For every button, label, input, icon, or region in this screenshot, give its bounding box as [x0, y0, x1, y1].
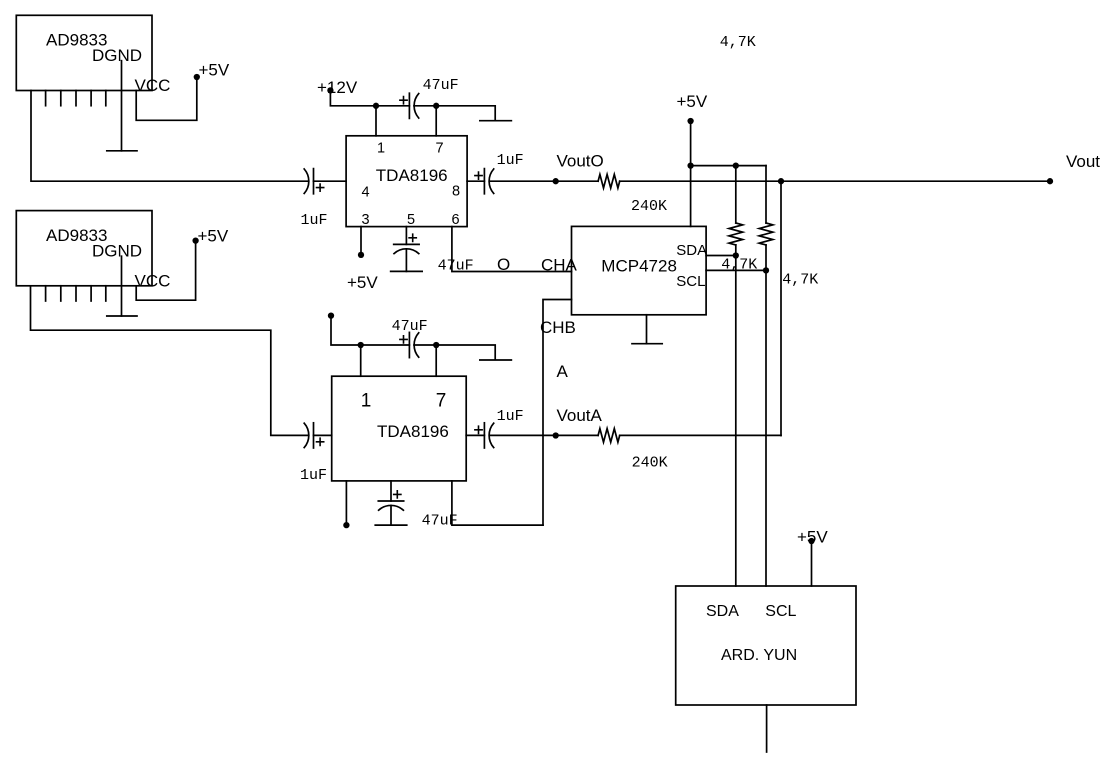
svg-text:Vout: Vout [1066, 152, 1100, 171]
svg-text:1uF: 1uF [300, 467, 327, 484]
wire rail C6 to ground [414, 345, 495, 360]
wire C8 to R4 [490, 434, 598, 436]
svg-text:DGND: DGND [92, 46, 142, 65]
node +5V (U1) [194, 74, 200, 80]
svg-text:5: 5 [407, 212, 415, 228]
wire rail C2 to ground [414, 106, 495, 121]
svg-text:A: A [557, 362, 569, 381]
svg-text:4,7K: 4,7K [782, 271, 818, 288]
svg-text:+5V: +5V [199, 61, 230, 80]
junction pullup rail +5V [687, 162, 693, 168]
svg-text:ARD. YUN: ARD. YUN [721, 647, 797, 664]
junction pin1 rail [373, 103, 379, 109]
svg-text:240K: 240K [632, 455, 668, 472]
wire U3 SDA pin [706, 255, 736, 257]
ground rail (C2) [480, 120, 512, 122]
wire U5 pin6 to CHB [452, 481, 543, 525]
svg-text:3: 3 [361, 212, 369, 228]
node +5V (U6) [808, 538, 814, 544]
wire supply rail left (U5) [331, 316, 409, 345]
ground U4 DGND [107, 315, 137, 317]
node Vout [1047, 178, 1053, 184]
junction pin7 rail (U5) [433, 342, 439, 348]
U4 pin stubs [46, 286, 106, 301]
svg-text:1uF: 1uF [497, 408, 524, 425]
junction SDA [733, 252, 739, 258]
svg-text:+5V: +5V [198, 227, 229, 246]
wire U4 DGND [121, 256, 123, 316]
junction pin7 rail [433, 103, 439, 109]
svg-text:7: 7 [436, 391, 447, 412]
svg-text:47uF: 47uF [423, 77, 459, 94]
svg-text:SCL: SCL [765, 603, 796, 620]
capacitor C3 47uF [394, 234, 419, 253]
svg-text:SCL: SCL [676, 273, 705, 290]
svg-text:+12V: +12V [317, 78, 358, 97]
ground C3 [391, 270, 423, 272]
ground rail (C6) [480, 359, 512, 361]
wire U4 VCC to +5V [136, 241, 195, 301]
wire C5 to U5 pin4 [314, 434, 332, 436]
svg-text:1uF: 1uF [497, 152, 524, 169]
resistor R4 240K [598, 429, 620, 443]
wire U1 DGND [121, 61, 123, 151]
wire U3 CHB [543, 300, 572, 526]
resistor R2 4,7K [729, 223, 743, 245]
IC U5 TDA8196 body [332, 376, 467, 481]
node +5V (MCP) [687, 118, 693, 124]
capacitor C7 47uF [378, 491, 403, 510]
svg-text:VoutA: VoutA [557, 406, 603, 425]
wire +5V to MCP VDD [690, 121, 692, 226]
wire pullup rail [691, 165, 766, 167]
node +5V (U4) [192, 237, 198, 243]
svg-text:47uF: 47uF [392, 318, 428, 335]
svg-text:MCP4728: MCP4728 [601, 257, 677, 276]
junction SCL [763, 267, 769, 273]
ground C7 [375, 524, 407, 526]
svg-text:8: 8 [452, 184, 460, 200]
svg-text:4,7K: 4,7K [720, 34, 756, 51]
capacitor C2 47uF [400, 93, 419, 118]
svg-text:TDA8196: TDA8196 [377, 422, 449, 441]
svg-text:6: 6 [451, 212, 459, 228]
resistor R1 240K [598, 174, 620, 188]
svg-text:4: 4 [361, 185, 369, 201]
capacitor C5 1uF input [304, 423, 324, 448]
svg-text:DGND: DGND [92, 242, 142, 261]
resistor R3 4,7K [759, 223, 773, 245]
junction pin1 rail (U5) [358, 342, 364, 348]
svg-text:VoutO: VoutO [557, 152, 604, 171]
wire C4 to R1 [490, 180, 598, 182]
wire U2 pin3 to +5V [360, 227, 362, 255]
svg-text:1: 1 [377, 141, 385, 157]
svg-text:+5V: +5V [677, 92, 708, 111]
svg-text:SDA: SDA [676, 242, 707, 259]
wire C1 to U2 pin4 [314, 180, 347, 182]
svg-text:CHB: CHB [540, 318, 576, 337]
wire Vout to VoutA branch [780, 181, 782, 435]
svg-text:240K: 240K [631, 198, 667, 215]
svg-text:SDA: SDA [706, 603, 739, 620]
node +12V [327, 87, 333, 93]
svg-text:1: 1 [361, 391, 372, 412]
wire U2 pin5 to C3 [405, 227, 407, 245]
wire U5 pin7 [435, 345, 437, 376]
wire +5V to U6 [811, 541, 813, 586]
wire U2 pin7 [435, 106, 437, 136]
svg-text:+5V: +5V [347, 273, 378, 292]
svg-text:O: O [497, 255, 510, 274]
wire U4 output to C5 [31, 286, 309, 436]
node VoutA [553, 432, 559, 438]
svg-text:7: 7 [435, 141, 443, 157]
capacitor C4 1uF output [475, 169, 494, 194]
svg-text:VCC: VCC [135, 272, 171, 291]
junction VoutA branch [778, 178, 784, 184]
wire +12V rail left [330, 90, 409, 105]
IC U3 MCP4728 body [572, 226, 707, 314]
wire R4 to Vout branch [620, 434, 781, 436]
node U5 pin3 [343, 522, 349, 528]
capacitor C6 47uF [400, 332, 419, 357]
wire SDA net to ARD [735, 245, 737, 586]
capacitor C1 1uF input [304, 169, 324, 194]
wire U5 pin5 to C7 [390, 481, 392, 501]
wire R1 to Vout [620, 180, 1050, 182]
wire R2 top [735, 166, 737, 223]
IC U6 ARD.YUN body [676, 586, 856, 705]
IC U1 AD9833 body [16, 15, 152, 90]
wire U1 VCC to +5V [136, 77, 197, 120]
wire U3 SCL pin [706, 269, 766, 271]
wire U2 pin8 to C4 [467, 180, 484, 182]
node VoutO [553, 178, 559, 184]
IC U2 TDA8196 body [346, 136, 467, 227]
junction pullup rail R2 [733, 162, 739, 168]
wire U2 pin6 to CHA [452, 227, 572, 272]
wire R3 top [765, 166, 767, 223]
wire SCL net to ARD [765, 245, 767, 586]
ground U3 [632, 343, 662, 345]
svg-text:1uF: 1uF [301, 212, 328, 229]
wire U3 ground [646, 315, 648, 344]
wire U1 output to C1 [31, 91, 309, 182]
wire U5 pin8 to C8 [466, 434, 484, 436]
wire C7 to ground [390, 506, 392, 526]
capacitor C8 1uF output [475, 423, 494, 448]
node supply stub (U5) [328, 312, 334, 318]
wire U2 pin1 [375, 106, 377, 136]
ground U1 DGND [107, 150, 137, 152]
U1 pin stubs [46, 91, 106, 106]
wire U5 pin3 stub [345, 481, 347, 525]
svg-text:+5V: +5V [797, 527, 828, 546]
wire U6 bottom stub [766, 705, 768, 752]
wire C3 to ground [405, 249, 407, 272]
svg-text:VCC: VCC [135, 76, 171, 95]
IC U4 AD9833 body [16, 211, 152, 286]
wire U5 pin1 [360, 345, 362, 376]
node +5V (U2 pin3) [358, 252, 364, 258]
svg-text:TDA8196: TDA8196 [376, 166, 448, 185]
